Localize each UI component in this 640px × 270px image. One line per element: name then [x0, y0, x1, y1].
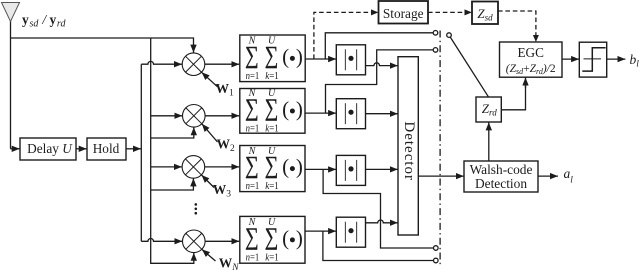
svg-text:al: al [564, 166, 574, 186]
svg-text:Detection: Detection [475, 176, 527, 191]
svg-text:Hold: Hold [93, 141, 120, 156]
svg-text:W1: W1 [216, 81, 235, 99]
svg-text:WN: WN [219, 256, 240, 270]
svg-text:ysd / yrd: ysd / yrd [22, 12, 66, 30]
svg-text:W2: W2 [217, 137, 236, 155]
svg-text:EGC: EGC [518, 45, 545, 60]
svg-text:Walsh-code: Walsh-code [470, 162, 533, 177]
svg-text:Delay U: Delay U [27, 141, 73, 156]
svg-text:W3: W3 [213, 182, 232, 200]
svg-text:Storage: Storage [383, 6, 424, 21]
svg-text:bl: bl [630, 52, 640, 70]
svg-text:(Zsd+Zrd)/2: (Zsd+Zrd)/2 [506, 63, 556, 76]
svg-text:Detector: Detector [401, 121, 417, 181]
